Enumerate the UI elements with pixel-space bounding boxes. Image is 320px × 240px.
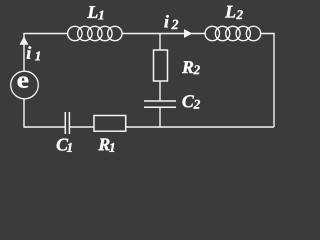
wire bottom segment C1 to R1 (70, 126, 94, 128)
resistor R2 (154, 50, 168, 81)
label C1 (57, 139, 72, 152)
wire top segment left (corner to L1) (24, 34, 68, 72)
capacitor C2 (144, 101, 176, 107)
capacitor C1 (65, 112, 69, 134)
inductor L2 (205, 26, 261, 40)
source e (circle) (11, 71, 39, 99)
wire left lower (source to bottom corner) (24, 99, 65, 127)
label R2 (182, 61, 200, 74)
label L2 (225, 6, 243, 19)
source e label (18, 77, 29, 88)
wire middle branch R2 to C2 (159, 81, 161, 101)
label i2 (164, 15, 178, 29)
label R1 (98, 139, 114, 152)
resistor R1 (94, 116, 126, 132)
label i1 (27, 46, 40, 60)
arrow i2 (right) (184, 29, 192, 38)
wire middle branch C2 to bottom (159, 108, 161, 128)
label C2 (183, 95, 200, 108)
wire top segment right (L2 to corner) and right side down (261, 34, 274, 128)
wire middle branch upper (node to R2) (159, 34, 161, 51)
inductor L1 (68, 26, 122, 40)
wire bottom segment R1 to right corner (126, 126, 274, 128)
wire top segment middle (L1 to L2) (122, 33, 206, 35)
label L1 (87, 6, 103, 19)
arrow i1 (up) (20, 36, 29, 45)
